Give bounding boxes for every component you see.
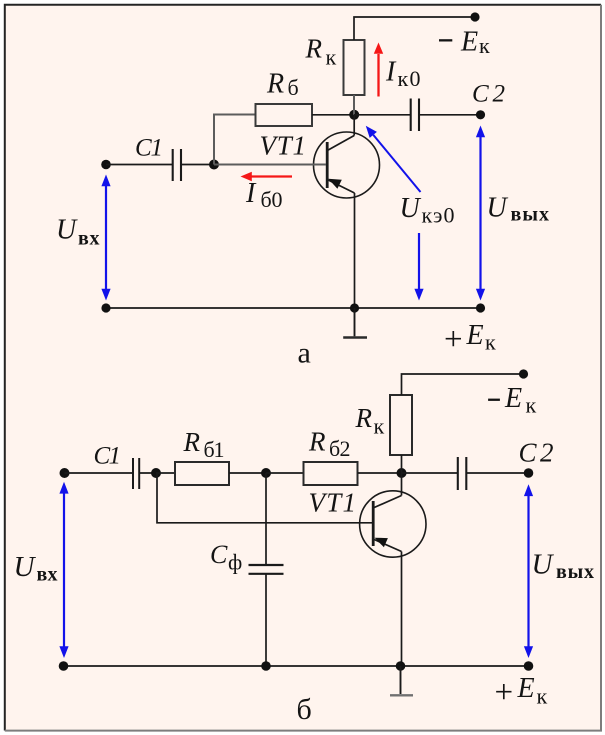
svg-text:вх: вх	[37, 564, 58, 586]
wire base b	[157, 473, 372, 523]
wire Rk bottom to node	[401, 455, 403, 473]
svg-text:R: R	[183, 427, 201, 457]
voltage arrow Ukeo down (blue)	[414, 233, 423, 301]
svg-text:U: U	[400, 193, 422, 224]
resistor Rb2	[304, 462, 358, 485]
wire Rb2 to collector node	[358, 472, 402, 474]
node base junction A	[209, 160, 219, 170]
wire C1 to base node	[181, 164, 214, 166]
voltage arrow Ukeo diagonal (blue)	[366, 126, 421, 192]
node input-b	[60, 468, 70, 478]
node supply terminal -Ek	[470, 12, 479, 21]
wire node to C2	[402, 472, 458, 474]
node rail left b	[59, 661, 69, 671]
svg-text:к: к	[526, 393, 537, 418]
svg-text:C: C	[210, 540, 228, 569]
capacitor C2	[411, 99, 419, 132]
wire base lead	[214, 164, 326, 166]
node after C1	[151, 468, 161, 478]
ground b	[390, 666, 413, 695]
label -Ek	[439, 39, 452, 41]
wire Rk top to supply terminal	[354, 17, 475, 40]
svg-text:C1: C1	[94, 443, 122, 470]
svg-text:R: R	[305, 34, 323, 64]
capacitor C1	[173, 149, 181, 181]
svg-text:U: U	[532, 549, 555, 581]
wire Rk bottom to collector node	[353, 95, 355, 115]
svg-text:б: б	[288, 75, 299, 100]
svg-text:U: U	[14, 551, 37, 583]
node rail emitter b	[396, 661, 406, 671]
resistor Rk	[344, 40, 365, 95]
svg-text:вых: вых	[556, 561, 594, 583]
svg-text:ф: ф	[228, 550, 242, 575]
svg-text:E: E	[504, 383, 522, 414]
wire input to C1	[65, 472, 133, 474]
svg-text:R: R	[355, 403, 373, 433]
wire C1 to node	[139, 472, 157, 474]
svg-text:б0: б0	[261, 187, 283, 212]
wire node to Rb1	[156, 472, 175, 474]
svg-text:к: к	[537, 684, 548, 709]
resistor Rb	[256, 104, 313, 126]
svg-text:к: к	[485, 330, 496, 355]
svg-text:I: I	[245, 178, 257, 209]
wire collector node to C2	[354, 114, 410, 116]
wire mid node to Rb2	[266, 472, 304, 474]
svg-text:к: к	[479, 33, 490, 58]
svg-text:к: к	[374, 414, 385, 439]
node output terminal top	[476, 110, 485, 119]
voltage arrow Uvx b (blue double)	[59, 482, 68, 658]
svg-text:C1: C1	[135, 134, 163, 161]
svg-text:кэ0: кэ0	[422, 203, 455, 228]
resistor Rb1	[175, 462, 229, 485]
node rail left	[101, 303, 110, 312]
resistor Rk	[390, 395, 412, 455]
node rail Cf b	[261, 661, 271, 671]
svg-text:R: R	[308, 427, 326, 457]
svg-text:I: I	[385, 56, 397, 87]
svg-text:E: E	[517, 673, 535, 704]
current arrow Ib0 (red, left)	[241, 172, 293, 181]
node output terminal b	[524, 468, 534, 478]
svg-text:к0: к0	[398, 66, 421, 91]
node input-a (left input terminal)	[101, 160, 111, 170]
node supply terminal -Ek b	[519, 369, 528, 378]
capacitor Cf	[249, 473, 284, 666]
wire bottom rail a	[106, 307, 481, 309]
wire input to C1	[106, 164, 172, 166]
node rail right	[476, 303, 485, 312]
svg-text:б2: б2	[329, 436, 351, 461]
node rail emitter	[350, 303, 359, 312]
svg-text:а: а	[298, 337, 311, 370]
ground	[343, 308, 367, 338]
svg-text:E: E	[466, 320, 484, 351]
svg-text:вх: вх	[78, 228, 100, 250]
wire base node up to Rb	[214, 115, 256, 165]
label -Ek b	[488, 399, 500, 401]
wire bottom rail b	[64, 665, 529, 667]
svg-text:б1: б1	[204, 437, 225, 462]
transistor VT1 b	[360, 473, 426, 666]
svg-text:VT1: VT1	[260, 131, 307, 161]
svg-text:U: U	[56, 214, 78, 245]
node collector junction	[349, 110, 359, 120]
svg-text:U: U	[487, 193, 509, 224]
svg-text:б: б	[297, 693, 312, 726]
voltage arrow Uvx (blue double)	[101, 175, 110, 301]
node mid junction	[261, 468, 271, 478]
wire C2 to output terminal	[419, 114, 481, 116]
svg-text:к: к	[326, 45, 337, 70]
svg-text:E: E	[460, 27, 478, 58]
svg-text:C2: C2	[519, 437, 554, 467]
svg-text:VT1: VT1	[309, 488, 357, 518]
current arrow Ik0 (red, up)	[374, 43, 383, 97]
svg-text:вых: вых	[511, 203, 550, 225]
svg-text:+: +	[444, 322, 463, 358]
wire Rb1 to mid node	[229, 472, 266, 474]
wire C2 to output terminal	[466, 472, 528, 474]
svg-text:+: +	[495, 675, 514, 711]
node collector junction b	[397, 468, 407, 478]
wire Rk top to supply	[402, 374, 524, 395]
wire Rb to collector node	[312, 114, 354, 116]
node rail right b	[524, 661, 534, 671]
capacitor C2 b	[458, 457, 467, 490]
svg-text:C2: C2	[472, 80, 505, 107]
voltage arrow Uvyx b (blue double)	[524, 484, 533, 658]
svg-text:R: R	[266, 69, 284, 100]
capacitor C1	[133, 458, 139, 489]
voltage arrow Uvyx (blue double)	[476, 126, 485, 301]
transistor VT1	[314, 115, 380, 308]
